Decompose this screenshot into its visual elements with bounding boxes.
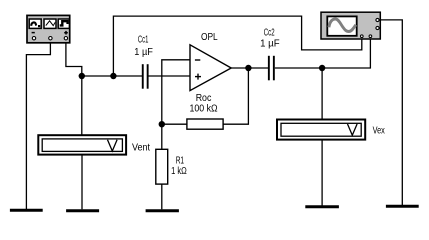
ground 2 [66,209,99,212]
node: input junction [79,73,85,79]
wire Cc1 to op-amp plus input [149,75,191,77]
wire voltmeter Vent to ground [81,156,83,210]
wire feedback node to R1 [161,124,163,149]
capacitor Cc2 [260,28,280,81]
function generator XFG1 [27,15,70,42]
capacitor Cc1 [134,35,153,89]
node: feedback junction [159,121,165,127]
svg-text:Vex: Vex [373,125,385,136]
node: input junction to scope [110,73,116,79]
wire top: input node up and across to scope channel A [113,16,361,76]
svg-text:Cc2: Cc2 [264,28,275,39]
wire Roc to output node [223,68,248,124]
resistor R1 [156,149,187,184]
svg-text:Roc: Roc [196,93,212,104]
wire scope ground terminal to right ground [381,20,403,205]
voltmeter Vex [277,120,385,140]
node: op-amp output junction [245,65,251,71]
ground 5 [386,205,419,208]
svg-text:1 µF: 1 µF [260,39,280,50]
wire op-amp minus input to feedback node [162,60,191,124]
wire input node down to voltmeter Vent [81,76,83,135]
svg-text:100 kΩ: 100 kΩ [190,103,219,114]
voltmeter Vent [38,135,150,154]
svg-text:OPL: OPL [201,32,218,43]
svg-text:R1: R1 [176,156,185,167]
oscilloscope XSC1 [321,12,380,39]
svg-text:Vent: Vent [132,143,150,154]
wire input node to Cc1 [82,75,142,77]
wire FG plus to input node [66,40,82,76]
wire output node to voltmeter Vex [321,68,323,119]
wire Cc2 to output line and scope channel B [275,38,371,69]
wire R1 to ground [161,184,163,209]
ground 3 [146,209,179,212]
svg-text:1 µF: 1 µF [134,47,153,58]
ground 4 [305,205,339,208]
op-amp U1 OPL [190,32,231,91]
ground 1 [10,209,43,212]
svg-text:Cc1: Cc1 [138,35,149,46]
wire op-amp output to Cc2 [231,67,268,69]
svg-text:1 kΩ: 1 kΩ [171,166,187,177]
node: output junction to voltmeter [319,65,325,71]
wire FG common to left ground [26,40,50,209]
wire feedback node to Roc [162,123,187,125]
resistor Roc [187,93,223,129]
wire voltmeter Vex to ground [321,141,323,206]
